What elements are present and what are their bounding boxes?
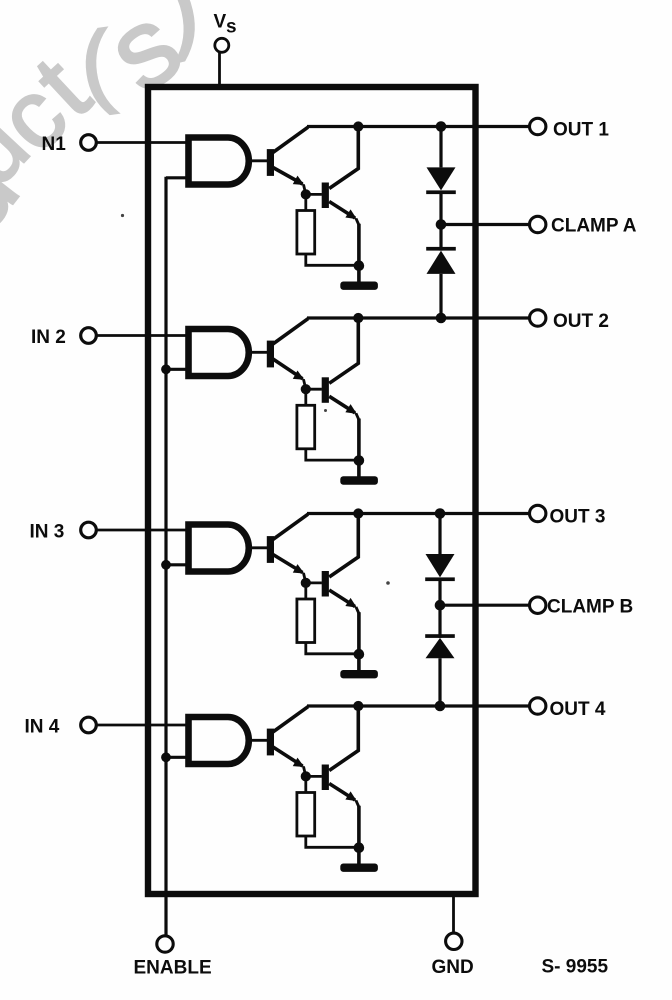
node collector/output channel 1 bbox=[353, 121, 363, 131]
pin ENABLE terminal bbox=[134, 936, 212, 979]
svg-text:CLAMP A: CLAMP A bbox=[551, 216, 637, 237]
transistor Q3a (input darlington) bbox=[267, 514, 308, 583]
ground symbol channel 2 bbox=[340, 461, 378, 485]
transistor Q1b (output darlington) bbox=[322, 127, 360, 226]
wire clamp tap CLAMP B bbox=[440, 604, 530, 607]
input pin N1 terminal bbox=[42, 134, 97, 155]
AND gate U3 bbox=[189, 525, 249, 572]
svg-text:CLAMP B: CLAMP B bbox=[547, 596, 633, 617]
wire gate 4 output to Q4a base bbox=[249, 739, 268, 742]
wire input 1 to gate bbox=[97, 141, 190, 144]
input pin IN4 terminal bbox=[25, 716, 97, 737]
svg-text:ENABLE: ENABLE bbox=[134, 958, 212, 979]
resistor R1 bbox=[297, 194, 359, 265]
wire Q3a emitter to Q3b base bbox=[306, 582, 322, 585]
junction emitter / resistor / ground channel 4 bbox=[354, 842, 365, 853]
output pin OUT 2 terminal bbox=[530, 310, 609, 332]
power pin VS terminal bbox=[214, 12, 237, 53]
wire collector node to OUT 2 bbox=[307, 316, 530, 319]
junction emitter / resistor / ground channel 3 bbox=[354, 649, 365, 660]
wire clamp tap CLAMP A bbox=[441, 223, 530, 226]
pin CLAMP B terminal bbox=[530, 596, 634, 617]
wire Q4b emitter to ground bbox=[357, 806, 361, 848]
output pin OUT 3 terminal bbox=[530, 505, 606, 527]
wire clamp chain A vertical bbox=[439, 127, 442, 319]
wire gate 3 output to Q3a base bbox=[249, 546, 268, 549]
junction clamp tap CLAMP A bbox=[436, 219, 447, 230]
junction clamp chain top OUT line bbox=[436, 121, 447, 132]
AND gate U2 bbox=[189, 329, 249, 376]
wire Q4a emitter to Q4b base bbox=[306, 775, 322, 778]
transistor Q4a (input darlington) bbox=[267, 707, 308, 777]
watermark text bbox=[0, 0, 208, 254]
transistor Q2a (input darlington) bbox=[267, 319, 308, 390]
wire Q1a emitter to Q1b base bbox=[306, 193, 322, 196]
svg-text:s: s bbox=[226, 17, 237, 38]
ground symbol channel 4 bbox=[340, 848, 378, 872]
svg-text:OUT 1: OUT 1 bbox=[553, 120, 609, 141]
clamp diode DA1 bbox=[426, 167, 456, 194]
junction enable rail / gate 4 bbox=[161, 752, 171, 762]
pin CLAMP A terminal bbox=[530, 216, 637, 237]
input pin IN2 terminal bbox=[31, 327, 96, 348]
junction clamp chain bottom OUT line bbox=[435, 701, 446, 712]
wire enable branch to gate 3 bbox=[166, 563, 190, 566]
resistor R4 bbox=[297, 776, 359, 847]
junction enable rail / gate 2 bbox=[161, 364, 171, 374]
wire collector node to OUT 3 bbox=[307, 512, 530, 515]
wire clamp chain B vertical bbox=[438, 514, 441, 707]
resistor R2 bbox=[297, 389, 359, 460]
node collector/output channel 2 bbox=[353, 313, 363, 323]
svg-text:IN 4: IN 4 bbox=[25, 716, 60, 737]
transistor Q2b (output darlington) bbox=[322, 318, 360, 420]
AND gate U1 bbox=[189, 138, 249, 185]
svg-text:IN 2: IN 2 bbox=[31, 327, 66, 348]
speck marks bbox=[121, 214, 390, 585]
transistor Q4b (output darlington) bbox=[322, 706, 360, 807]
pin GND terminal bbox=[432, 933, 474, 978]
wire collector node to OUT 4 bbox=[307, 704, 530, 707]
junction clamp chain top OUT line bbox=[435, 508, 446, 519]
output pin OUT 4 terminal bbox=[530, 698, 606, 720]
junction clamp chain bottom OUT line bbox=[436, 313, 447, 324]
transistor Q1a (input darlington) bbox=[267, 127, 308, 194]
input pin IN3 terminal bbox=[30, 521, 97, 542]
ground symbol channel 3 bbox=[340, 654, 378, 678]
svg-text:OUT 2: OUT 2 bbox=[553, 311, 609, 332]
wire gate 2 output to Q2a base bbox=[249, 351, 268, 354]
junction enable rail / gate 3 bbox=[161, 560, 171, 570]
IC package boundary box bbox=[148, 87, 476, 894]
wire collector node to OUT 1 bbox=[307, 125, 530, 128]
wire enable branch to gate 2 bbox=[166, 368, 190, 371]
svg-text:V: V bbox=[214, 12, 227, 33]
wire input 3 to gate bbox=[97, 529, 190, 532]
junction Q4b base / resistor R4 bbox=[301, 771, 311, 781]
clamp diode DA2 bbox=[426, 247, 456, 274]
wire enable rail top branch to gate 1 bbox=[166, 176, 190, 179]
junction Q3b base / resistor R3 bbox=[301, 578, 311, 588]
wire ENABLE rail bbox=[164, 177, 167, 936]
ground symbol channel 1 bbox=[340, 266, 378, 290]
wire input 4 to gate bbox=[97, 724, 190, 727]
wire VS to box bbox=[218, 52, 221, 87]
wire GND pin bbox=[452, 894, 455, 932]
clamp diode DB2 bbox=[425, 634, 455, 658]
node collector/output channel 3 bbox=[353, 508, 363, 518]
junction Q2b base / resistor R2 bbox=[301, 384, 311, 394]
clamp diode DB1 bbox=[425, 554, 455, 581]
AND gate U4 bbox=[189, 717, 249, 764]
junction emitter / resistor / ground channel 1 bbox=[354, 260, 365, 271]
output pin OUT 1 terminal bbox=[530, 118, 610, 140]
wire gate 1 output to Q1a base bbox=[249, 159, 268, 162]
wire enable branch to gate 4 bbox=[166, 756, 190, 759]
junction Q1b base / resistor R1 bbox=[301, 189, 311, 199]
wire Q2a emitter to Q2b base bbox=[306, 388, 322, 391]
svg-text:S- 9955: S- 9955 bbox=[542, 957, 609, 978]
resistor R3 bbox=[297, 583, 359, 654]
transistor Q3b (output darlington) bbox=[322, 514, 360, 614]
node collector/output channel 4 bbox=[353, 701, 363, 711]
svg-text:OUT 4: OUT 4 bbox=[550, 699, 606, 720]
svg-text:OUT 3: OUT 3 bbox=[550, 507, 606, 528]
svg-text:N1: N1 bbox=[42, 134, 67, 155]
wire Q1b emitter to ground bbox=[357, 224, 361, 266]
junction clamp tap CLAMP B bbox=[435, 600, 446, 611]
wire Q3b emitter to ground bbox=[357, 612, 361, 654]
wire Q2b emitter to ground bbox=[357, 419, 361, 461]
svg-text:IN 3: IN 3 bbox=[30, 521, 65, 542]
wire input 2 to gate bbox=[97, 334, 190, 337]
junction emitter / resistor / ground channel 2 bbox=[354, 455, 365, 466]
svg-text:GND: GND bbox=[432, 957, 474, 978]
